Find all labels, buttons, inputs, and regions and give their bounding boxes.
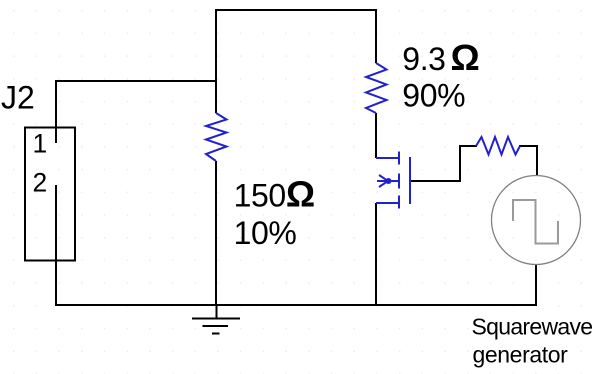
svg-text:2: 2 xyxy=(33,168,48,198)
svg-text:Ω: Ω xyxy=(451,37,480,78)
svg-text:J2: J2 xyxy=(1,80,35,116)
svg-text:Squarewave: Squarewave xyxy=(472,313,593,339)
svg-text:90%: 90% xyxy=(402,77,465,113)
svg-text:9.3: 9.3 xyxy=(402,41,445,77)
svg-text:10%: 10% xyxy=(234,215,297,251)
svg-text:1: 1 xyxy=(33,129,48,159)
svg-text:150: 150 xyxy=(234,178,286,214)
svg-text:Ω: Ω xyxy=(286,174,315,215)
svg-text:generator: generator xyxy=(473,342,569,368)
